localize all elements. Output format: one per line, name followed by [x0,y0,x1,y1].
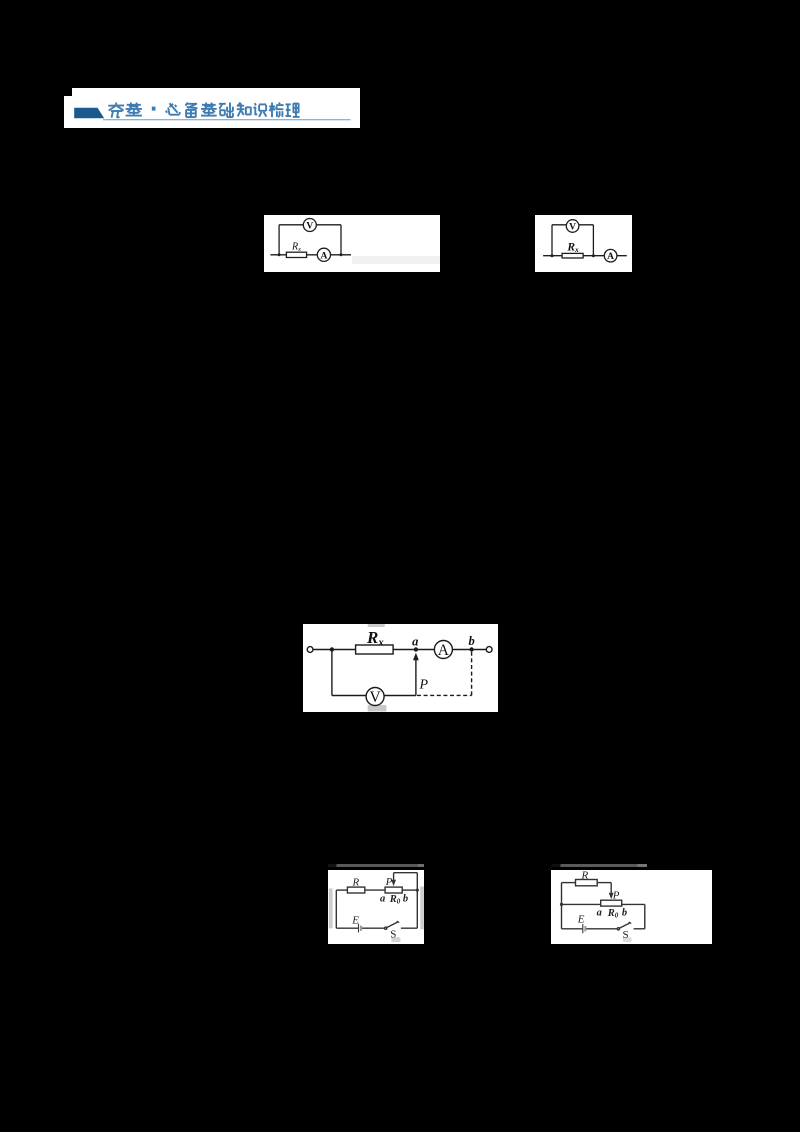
svg-text:V: V [570,222,577,232]
hidden caption strip top [368,624,385,627]
terminal left [307,646,313,652]
wire top horizontal [336,889,347,891]
caption bar above panel E [552,864,648,868]
svg-text:S: S [622,929,628,941]
node left junction [560,903,563,906]
resistor R [575,880,597,886]
svg-text:V: V [306,221,313,231]
slider wire and arrow [610,883,612,895]
wire middle horizontal [561,903,600,905]
node left junction [277,253,280,256]
resistor R [347,887,364,893]
circuit panel B (ammeter-internal measurement of Rx) [535,215,632,272]
header underline [103,119,351,120]
resistor Rx [286,252,306,257]
switch S [384,927,386,929]
voltmeter V3 [366,687,384,705]
svg-text:E: E [351,914,359,926]
node left junction [551,254,554,257]
node a [414,647,418,651]
svg-text:R0: R0 [388,894,400,905]
switch S [617,928,619,930]
svg-text:R: R [580,870,588,882]
ammeter A3 [434,640,452,658]
header title text (CJK) [108,103,299,118]
wire dashed vertical [470,651,472,695]
wire right vertical [593,225,595,256]
hidden caption strip [352,256,441,264]
wire bottom horizontal [332,694,416,696]
svg-text:P: P [384,876,392,888]
svg-text:E: E [577,914,585,926]
svg-text:R0: R0 [607,908,619,919]
wire bottom with battery and switch gaps [336,927,358,929]
svg-text:Rx: Rx [567,241,580,254]
header trapezoid icon [74,108,104,119]
svg-text:P: P [612,890,620,902]
hidden caption strip bottom [368,704,387,710]
svg-text:Rx: Rx [366,628,384,648]
battery E plates [582,924,584,933]
voltmeter V2 [567,220,580,233]
svg-text:A: A [320,251,327,261]
svg-text:P: P [418,677,428,692]
slider wire and arrow [392,872,394,881]
svg-text:Rx: Rx [291,241,301,253]
node right junction [339,253,342,256]
hidden text strip left [328,888,332,928]
wire right vertical [340,225,342,255]
wire main horizontal [270,254,351,256]
svg-text:A: A [608,252,615,262]
wire left vertical [335,890,337,928]
wire top horizontal [552,224,593,226]
svg-text:a: a [380,893,385,904]
svg-text:a: a [412,634,418,648]
node top-right junction [415,888,418,891]
circuit panel C (Rx with ammeter, sliding contact P between a and b) [303,624,498,713]
ammeter A1 [317,248,330,261]
hidden text strip below S [623,937,631,942]
wire top horizontal [561,882,575,884]
svg-text:b: b [402,893,407,904]
svg-text:V: V [369,688,381,705]
wire main horizontal [543,255,627,257]
wire main horizontal [313,648,356,650]
svg-text:b: b [468,634,474,648]
circuit panel A (ammeter-external measurement of Rx) [264,215,441,272]
node left junction [330,647,334,651]
svg-text:b: b [622,907,627,918]
rheostat R0 [385,887,402,893]
caption bar above panel D [328,864,424,867]
wire left vertical [331,649,333,695]
svg-text:R: R [351,876,359,888]
wire left vertical [560,883,562,929]
wire left vertical [278,225,280,255]
terminal right [486,646,492,652]
ammeter A2 [605,249,618,262]
circuit panel E (battery E, switch S, resistor R above rheostat R0 with slider P) [551,870,713,944]
resistor Rx [562,253,583,258]
wire right vertical [416,890,418,928]
wire top horizontal [279,224,341,226]
hidden text strip right [420,886,424,929]
svg-text:A: A [438,641,450,658]
circuit panel D (battery E, switch S, resistor R, rheostat R0 with slider P) [328,870,425,944]
battery E plates [357,924,359,933]
resistor Rx [355,645,392,654]
svg-text:a: a [596,908,601,919]
wire dashed horizontal [417,694,472,696]
rheostat R0 [600,900,621,906]
node right junction [592,254,595,257]
hidden text strip below S [391,937,400,942]
slider arrow P [415,658,417,695]
svg-text:S: S [390,928,396,940]
header panel [72,88,360,128]
wire bottom with battery and switch gaps [561,928,582,930]
node b [469,647,473,651]
wire left vertical [551,225,553,256]
wire right vertical [644,904,646,928]
voltmeter V1 [303,219,316,232]
